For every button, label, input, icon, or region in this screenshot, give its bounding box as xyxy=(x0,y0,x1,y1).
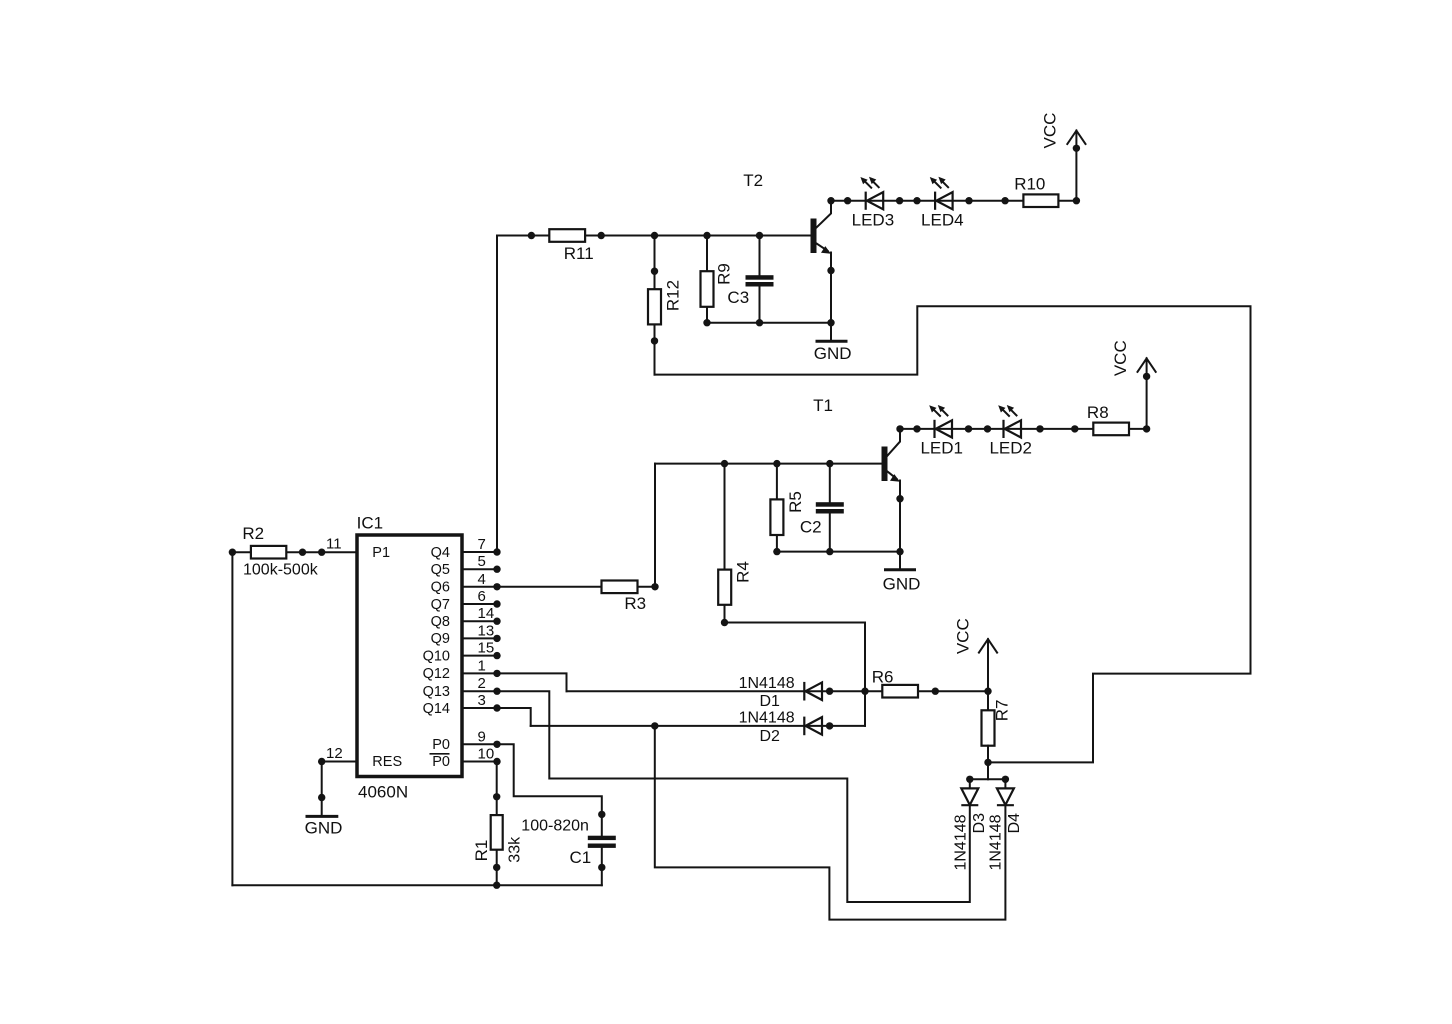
LED LED4 xyxy=(921,177,964,230)
resistor R2 xyxy=(242,524,318,578)
node dot on D2 line xyxy=(826,722,833,729)
svg-text:100-820n: 100-820n xyxy=(521,817,589,834)
ground symbol T1 xyxy=(883,570,921,594)
transistor T2 xyxy=(743,171,831,254)
svg-text:15: 15 xyxy=(478,640,495,657)
wire pin 1 (Q12) jog down to D1 line xyxy=(497,673,567,691)
capacitor C1 xyxy=(521,817,616,867)
pin 14 stub (Q8) xyxy=(462,620,497,622)
node dots on T1 bottom rail xyxy=(773,548,904,555)
wire R9 branch vertical xyxy=(706,236,708,323)
svg-text:9: 9 xyxy=(478,728,486,745)
svg-text:D4: D4 xyxy=(1006,813,1023,834)
svg-text:VCC: VCC xyxy=(1041,113,1060,149)
svg-text:Q6: Q6 xyxy=(431,580,450,596)
diode D3 1N4148 xyxy=(961,788,978,805)
svg-text:4: 4 xyxy=(478,571,486,588)
wire R4 branch vertical xyxy=(724,464,726,623)
svg-text:R12: R12 xyxy=(664,280,683,311)
resistor R9 xyxy=(701,263,734,307)
diode D1 1N4148 xyxy=(804,682,822,701)
svg-text:GND: GND xyxy=(305,819,343,838)
wire Q14 net down and over to D4 cathode xyxy=(655,726,1006,920)
svg-text:R1: R1 xyxy=(472,840,491,862)
svg-text:VCC: VCC xyxy=(954,618,973,654)
wire big loop from R12 bottom to R7 bottom xyxy=(655,306,1251,762)
wire C2 branch vertical bottom xyxy=(829,513,831,551)
wire T1 LED line xyxy=(900,428,1147,430)
svg-text:P0: P0 xyxy=(432,754,450,770)
capacitor C2 xyxy=(800,502,844,536)
pin 11 stub (P1) xyxy=(322,551,357,553)
pin 5 stub (Q5) xyxy=(462,568,497,570)
wire anode split bar xyxy=(970,778,1006,780)
node dots on T1 LED line xyxy=(896,425,1150,432)
svg-text:R6: R6 xyxy=(872,667,894,686)
svg-text:Q14: Q14 xyxy=(423,701,450,717)
ground symbol at RES xyxy=(305,816,343,837)
resistor R3 xyxy=(602,581,659,614)
svg-text:P1: P1 xyxy=(372,545,390,561)
resistor R1 xyxy=(472,793,524,871)
svg-text:R11: R11 xyxy=(564,244,594,263)
svg-text:R3: R3 xyxy=(624,594,646,613)
power symbol VCC top right xyxy=(1041,113,1086,201)
svg-text:R8: R8 xyxy=(1087,403,1109,422)
wire T2 base line xyxy=(497,235,811,237)
svg-text:6: 6 xyxy=(478,588,486,605)
pin 13 stub (Q9) xyxy=(462,637,497,639)
wire R12 branch vertical xyxy=(654,236,656,375)
svg-text:LED2: LED2 xyxy=(989,439,1032,458)
svg-text:D1: D1 xyxy=(759,693,780,710)
wire from R4 bottom to D1/R6 junction xyxy=(725,623,866,726)
diode D2 1N4148 xyxy=(804,717,822,736)
pin 7 stub (Q4) xyxy=(462,551,497,553)
node dots at R2 xyxy=(229,549,326,556)
pin 12 stub (RES) xyxy=(322,761,357,763)
svg-text:R4: R4 xyxy=(734,561,753,583)
svg-text:11: 11 xyxy=(326,536,342,553)
svg-text:VCC: VCC xyxy=(1111,340,1130,376)
resistor R6 xyxy=(872,667,918,697)
power symbol VCC at R6/R7 xyxy=(954,618,997,691)
svg-text:R5: R5 xyxy=(786,491,805,513)
wire pin 2 (Q13) net to D3 cathode xyxy=(497,691,970,902)
pin 1 stub (Q12) xyxy=(462,672,497,674)
svg-text:R2: R2 xyxy=(242,524,264,543)
svg-text:Q10: Q10 xyxy=(423,648,450,664)
svg-text:R7: R7 xyxy=(993,700,1012,722)
svg-text:R10: R10 xyxy=(1014,175,1045,194)
svg-text:RES: RES xyxy=(372,754,402,770)
svg-text:Q12: Q12 xyxy=(423,666,450,682)
node dots on T2 base line xyxy=(528,232,764,239)
svg-text:3: 3 xyxy=(478,692,486,709)
svg-text:14: 14 xyxy=(478,605,495,622)
power symbol VCC above R8 xyxy=(1111,340,1156,429)
wire T2 LED line xyxy=(831,200,1076,202)
resistor R4 xyxy=(718,561,752,626)
wire R7 top lead xyxy=(987,691,989,710)
resistor R11 xyxy=(549,229,593,263)
ground symbol T2 xyxy=(814,341,852,363)
svg-text:C1: C1 xyxy=(570,848,592,867)
wire R2 line xyxy=(232,551,321,553)
svg-text:7: 7 xyxy=(478,536,486,553)
node dots on T2 LED line xyxy=(827,197,1080,204)
resistor R10 xyxy=(1014,175,1058,208)
IC U1 4060N body xyxy=(357,514,462,802)
svg-text:Q7: Q7 xyxy=(431,597,450,613)
svg-text:10: 10 xyxy=(478,746,495,763)
resistor R7 xyxy=(982,700,1012,746)
wire C3 branch vertical bottom xyxy=(759,286,761,323)
LED LED3 xyxy=(852,177,895,230)
svg-text:1N4148: 1N4148 xyxy=(739,709,795,726)
LED LED2 xyxy=(989,405,1032,458)
wire RES pin to ground xyxy=(321,762,323,816)
node dot at C1 top lead xyxy=(598,811,605,818)
wire D4 anode lead xyxy=(1004,779,1006,788)
svg-text:T1: T1 xyxy=(813,396,833,415)
svg-text:5: 5 xyxy=(478,553,486,570)
svg-text:D3: D3 xyxy=(971,813,988,834)
svg-text:C2: C2 xyxy=(800,517,822,536)
wire pin 3 (Q14) jog down to D2 line xyxy=(497,708,531,726)
svg-text:1N4148: 1N4148 xyxy=(739,675,795,692)
svg-text:Q4: Q4 xyxy=(431,545,450,561)
pin 2 stub (Q13) xyxy=(462,690,497,692)
wire R7 bottom lead to anode split xyxy=(987,746,989,780)
wire D2 line xyxy=(531,725,865,727)
wire bottom rail xyxy=(232,884,601,886)
svg-text:R9: R9 xyxy=(715,263,734,285)
node dots on D1 line xyxy=(826,688,833,695)
LED LED1 xyxy=(920,405,963,458)
svg-text:T2: T2 xyxy=(743,171,763,190)
svg-text:IC1: IC1 xyxy=(357,514,383,533)
wire vertical from R3 up to T1 base xyxy=(654,464,656,587)
svg-text:2: 2 xyxy=(478,675,486,692)
resistor R12 xyxy=(648,268,683,345)
wire C1 bottom to rail xyxy=(601,848,603,885)
pin 10 stub (P0bar) xyxy=(462,761,497,763)
svg-text:1: 1 xyxy=(478,657,486,674)
wire R5 branch vertical xyxy=(776,464,778,552)
pin 6 stub (Q7) xyxy=(462,603,497,605)
svg-text:1N4148: 1N4148 xyxy=(952,814,969,870)
resistor R5 xyxy=(770,491,805,535)
wire T2 stage bottom rail xyxy=(707,322,831,324)
wire T1 emitter vertical to rail and GND xyxy=(899,481,901,569)
wire pin7 vertical from T2 base to IC pin 7 xyxy=(496,236,498,553)
node Q14/D2 junction xyxy=(651,722,658,729)
wire D1 line to R6 junction xyxy=(567,690,866,692)
svg-text:Q9: Q9 xyxy=(431,631,450,647)
svg-text:P0: P0 xyxy=(432,737,450,753)
wire left vertical from R2 to bottom rail xyxy=(231,552,233,885)
svg-text:1N4148: 1N4148 xyxy=(987,814,1004,870)
svg-text:Q5: Q5 xyxy=(431,562,450,578)
svg-text:D2: D2 xyxy=(759,728,780,745)
diode D4 1N4148 xyxy=(997,788,1014,805)
node dots on R6 line xyxy=(932,688,939,695)
node dots on T1 base line xyxy=(721,460,834,467)
transistor T1 xyxy=(813,396,900,482)
pin 15 stub (Q10) xyxy=(462,655,497,657)
pin 3 stub (Q14) xyxy=(462,707,497,709)
svg-text:100k-500k: 100k-500k xyxy=(243,561,319,578)
pin 4 stub (Q6) xyxy=(462,586,497,588)
svg-text:Q8: Q8 xyxy=(431,614,450,630)
svg-text:Q13: Q13 xyxy=(423,684,450,700)
wire C2 branch vertical top xyxy=(829,464,831,503)
wire T1 stage bottom rail xyxy=(777,551,900,553)
resistor R8 xyxy=(1087,403,1129,435)
svg-text:12: 12 xyxy=(326,745,343,762)
pin numbers right side xyxy=(478,536,495,763)
svg-text:GND: GND xyxy=(883,575,921,594)
wire C3 branch vertical top xyxy=(759,236,761,276)
svg-text:C3: C3 xyxy=(727,288,749,307)
svg-text:LED3: LED3 xyxy=(852,210,895,229)
svg-text:13: 13 xyxy=(478,622,495,639)
capacitor C3 xyxy=(727,275,773,307)
svg-text:LED1: LED1 xyxy=(920,439,963,458)
wire T1 base line xyxy=(655,463,882,465)
wire T2 emitter vertical to rail and GND xyxy=(830,253,832,340)
svg-text:LED4: LED4 xyxy=(921,210,964,229)
wire D3 anode lead xyxy=(969,779,971,788)
svg-text:33k: 33k xyxy=(507,836,524,863)
wire pin 4 (Q6) line to R3 xyxy=(497,586,655,588)
svg-text:4060N: 4060N xyxy=(358,782,408,801)
wire R6 line xyxy=(865,690,988,692)
node dots on T2 bottom rail xyxy=(703,319,834,326)
pin stub end dots xyxy=(493,548,500,765)
pin 9 stub (P0) xyxy=(462,743,497,745)
svg-text:GND: GND xyxy=(814,344,852,363)
wire pin 10 vertical through R1 xyxy=(496,762,498,886)
wire pin 9 (P0) net to C1 top xyxy=(497,744,602,835)
